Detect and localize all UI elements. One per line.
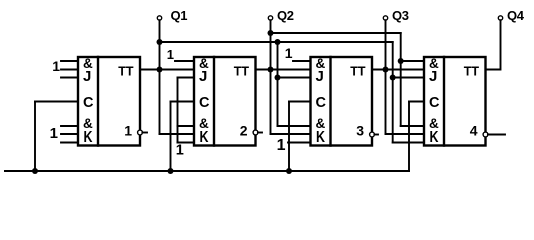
- wire clock tap vertical to FF2: [170, 102, 172, 172]
- svg-text:C: C: [199, 95, 210, 111]
- terminal Q4 circle: [498, 16, 502, 20]
- wire FF2 J3 input stub: [178, 77, 195, 79]
- svg-text:J: J: [199, 68, 207, 85]
- svg-text:1: 1: [52, 58, 60, 74]
- svg-text:TT: TT: [464, 65, 480, 79]
- flip-flop U1 inverted output bubble: [138, 130, 143, 135]
- svg-text:K: K: [84, 129, 94, 146]
- flip-flop U2 inverted output bubble: [253, 130, 258, 135]
- wire FF1 K input line 2: [61, 133, 78, 135]
- junction Q2 at FF2 output: [268, 67, 274, 73]
- svg-text:3: 3: [356, 123, 364, 139]
- junction Q2 at FF4 J1 row: [398, 58, 404, 64]
- svg-text:Q3: Q3: [392, 8, 409, 23]
- wire Q2 to FF4 J1 input: [401, 60, 424, 62]
- svg-text:K: K: [430, 129, 440, 146]
- terminal Q1 circle: [157, 16, 161, 20]
- wire FF4 output elbow to Q4 terminal: [486, 20, 501, 69]
- wire Q1 horizontal branch: [160, 41, 393, 43]
- junction Q1 branch start: [157, 39, 163, 45]
- terminal Q3 circle: [383, 16, 387, 20]
- terminal Q2 circle: [268, 16, 272, 20]
- flip-flop U4 section divider: [443, 57, 445, 146]
- wire clock tap vertical to FF1: [34, 102, 36, 172]
- wire FF1 output to FF2 J2 input: [140, 69, 194, 71]
- wire inverted output stub of U3: [374, 134, 378, 136]
- wire FF3 J1 constant input: [293, 60, 311, 62]
- wire inverted output stub of U2: [258, 132, 262, 134]
- wire Q3 elbow to FF4 K2 input: [386, 133, 425, 135]
- svg-text:2: 2: [240, 123, 248, 139]
- wire clock tap vertical to FF4: [408, 102, 410, 172]
- wire Q1 vertical: [159, 20, 161, 134]
- wire clock tap horizontal to FF1 C input: [35, 101, 78, 103]
- flip-flop U1 box outline: [78, 57, 140, 146]
- wire FF1 J input line 2: [61, 69, 78, 71]
- wire Q2 vertical: [270, 20, 272, 134]
- svg-text:K: K: [200, 129, 210, 146]
- wire FF1 J input line 3: [61, 77, 78, 79]
- wire FF2 constant-1 vertical: [177, 78, 179, 143]
- junction Q2 branch start: [268, 30, 274, 36]
- junction on clock bus at tap 3: [286, 168, 292, 174]
- svg-text:C: C: [429, 95, 440, 111]
- wire clock tap horizontal to FF4 C input: [409, 101, 424, 103]
- wire FF2 K3 input stub: [178, 142, 195, 144]
- junction Q1 branch to FF3 drop: [275, 39, 281, 45]
- wire Q1 drop to FF3: [277, 42, 279, 126]
- svg-text:TT: TT: [234, 65, 250, 79]
- flip-flop U4 inverted output bubble: [483, 132, 488, 137]
- flip-flop U3 section divider: [329, 57, 331, 146]
- wire Q2 to FF4 K1 input: [401, 125, 424, 127]
- wire FF3 K3 constant input: [288, 142, 311, 144]
- flip-flop U3 box outline: [311, 57, 373, 146]
- svg-text:J: J: [429, 68, 437, 85]
- flip-flop U3 inverted output bubble: [370, 132, 375, 137]
- svg-text:Q2: Q2: [277, 8, 294, 23]
- svg-text:Q1: Q1: [171, 8, 188, 23]
- svg-text:1: 1: [176, 143, 184, 159]
- svg-text:1: 1: [50, 125, 58, 142]
- svg-text:1: 1: [277, 137, 286, 154]
- wire FF2 K1 input stub: [178, 125, 195, 127]
- svg-text:K: K: [316, 129, 326, 146]
- wire inverted output stub of U4: [488, 134, 505, 136]
- wire FF1 K input line 1: [61, 125, 78, 127]
- wire clock tap vertical to FF3: [288, 102, 290, 172]
- wire clock tap horizontal to FF2 C input: [171, 101, 195, 103]
- wire Q2 horizontal branch: [271, 32, 401, 34]
- wire FF1 K input line 3: [61, 142, 78, 144]
- junction Q1 at FF1 output: [157, 67, 163, 73]
- svg-text:C: C: [83, 95, 94, 111]
- wire Q1 to FF4 K3 input: [393, 142, 424, 144]
- svg-text:J: J: [83, 68, 91, 85]
- wire Q2 drop to FF4: [400, 33, 402, 126]
- junction Q1 at FF4 J3 row: [390, 75, 396, 81]
- junction Q3 at FF3 output: [383, 67, 389, 73]
- wire Q3 vertical: [385, 20, 387, 134]
- wire clock bus: [5, 170, 409, 172]
- svg-text:1: 1: [167, 47, 174, 62]
- flip-flop U1 section divider: [97, 57, 99, 146]
- junction on clock bus at tap 2: [168, 168, 174, 174]
- wire Q1 to FF3 K1 input: [278, 125, 311, 127]
- wire Q1 to FF3 J3 input: [278, 77, 311, 79]
- svg-text:Q4: Q4: [507, 8, 525, 23]
- svg-text:1: 1: [285, 45, 293, 61]
- wire Q1 to FF4 J3 input: [393, 77, 424, 79]
- wire clock tap horizontal to FF3 C input: [289, 101, 311, 103]
- wire Q1 elbow to FF2 K2 input: [160, 133, 195, 135]
- junction on clock bus at tap 1: [32, 168, 38, 174]
- wire Q2 elbow to FF3 K2 input: [271, 133, 311, 135]
- svg-text:TT: TT: [350, 65, 366, 79]
- flip-flop U2 box outline: [194, 57, 256, 146]
- wire FF1 J input line 1: [61, 60, 78, 62]
- flip-flop U2 section divider: [213, 57, 215, 146]
- svg-text:TT: TT: [118, 65, 134, 79]
- wire FF3 output to FF4 J2 input: [372, 69, 424, 71]
- svg-text:C: C: [316, 95, 327, 111]
- svg-text:1: 1: [124, 123, 132, 139]
- wire FF2 output to FF3 J2 input: [256, 69, 311, 71]
- svg-text:4: 4: [470, 123, 478, 139]
- wire FF2 J1 constant input: [175, 60, 194, 62]
- wire inverted output stub of U1: [142, 132, 147, 134]
- flip-flop U4 box outline: [424, 57, 486, 146]
- wire Q1 drop to FF4: [392, 42, 394, 143]
- svg-text:J: J: [316, 68, 324, 85]
- junction Q1 at FF3 J3 row: [275, 75, 281, 81]
